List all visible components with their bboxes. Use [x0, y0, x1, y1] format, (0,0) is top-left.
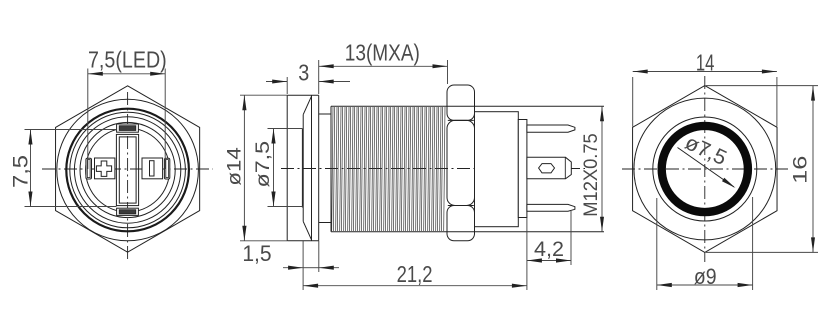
dim o14 dimension line: [243, 95, 245, 241]
dim o7,5 arrow bottom: [271, 192, 275, 207]
left view right contact bar inner: [166, 160, 169, 178]
dim M12X0.75 dimension line: [601, 106, 603, 232]
thread hatching: [332, 107, 445, 231]
svg-text:7,5(LED): 7,5(LED): [88, 46, 167, 72]
dim 7,5 extension line bottom: [25, 206, 117, 208]
rear collar: [518, 120, 527, 218]
dim 7,5 arrow bottom: [28, 192, 32, 207]
dim 1,5 segment: [303, 267, 319, 269]
middle view button side edge: [302, 115, 304, 222]
dim 3 arrow left: [272, 80, 287, 84]
middle view thread shoulder: [330, 106, 332, 232]
middle pin hole: [539, 164, 555, 173]
dim o9 extension left: [656, 198, 658, 290]
dim o14 arrow top: [242, 95, 246, 110]
left view top terminal hatch: [119, 126, 136, 131]
dim 4,2 dimension line: [527, 260, 571, 262]
dim 7,5 dimension line: [30, 130, 32, 207]
hex nut bottom facet: [447, 206, 475, 241]
hex nut top facet: [447, 85, 475, 120]
dim 1,5 arrow left: [288, 266, 303, 270]
left view bottom terminal hatch: [119, 210, 136, 214]
dim 14 arrow left: [633, 70, 648, 74]
dim 4,2 arrow right: [556, 258, 571, 262]
left view circle step 2: [74, 117, 180, 223]
left view bottom terminal outer: [117, 208, 139, 215]
dim o7,5 arrow top: [271, 129, 275, 144]
left view cross recess: [96, 161, 111, 176]
svg-text:ø7,5: ø7,5: [253, 141, 274, 188]
left view left contact bar inner: [87, 160, 90, 178]
leader line o7,5: [678, 148, 735, 188]
svg-text:1,5: 1,5: [242, 241, 271, 266]
middle pin chamfer line: [564, 157, 566, 179]
middle view head top edge: [287, 94, 319, 96]
dim o9 arrow right: [738, 283, 753, 287]
svg-text:ø14: ø14: [225, 147, 246, 186]
right view hexagon outline: [633, 86, 777, 253]
left view slot recess: [150, 161, 155, 176]
dim 14 arrow right: [762, 70, 777, 74]
leader arrow: [722, 178, 736, 188]
dim 1,5 extension right: [318, 241, 320, 272]
dim 16 dimension line: [812, 86, 814, 253]
dim 7,5(LED) extension line left: [87, 69, 89, 170]
right view button circle: [653, 117, 757, 221]
dim 7,5(LED) arrow right: [150, 72, 165, 76]
middle view flange inner edge: [311, 95, 313, 241]
dim 3 dimension tail left: [266, 81, 287, 83]
dim 13(MXA) dimension line: [319, 65, 448, 67]
middle view chamfer top: [303, 96, 311, 114]
dim 13(MXA) arrow left: [319, 64, 334, 68]
dim o7,5 extension bottom: [268, 206, 303, 208]
dim 14 dimension line: [633, 71, 777, 73]
left view central LED slot inner: [119, 137, 136, 203]
middle pin with hole: [527, 157, 571, 179]
top pin: [527, 125, 575, 132]
left view left square contact: [95, 158, 115, 179]
svg-text:ø9: ø9: [694, 264, 717, 289]
dim o9 dimension line: [657, 284, 753, 286]
middle view flange back face: [318, 95, 320, 241]
middle view thread top edge and M12 extension: [331, 105, 604, 107]
middle view horizontal centerline: [281, 168, 585, 170]
dim 7,5 arrow top: [28, 130, 32, 145]
dim 7,5(LED) dimension line: [88, 73, 165, 75]
dim 7,5(LED) extension line right: [164, 69, 166, 170]
middle view thread bottom edge and M12 extension: [331, 231, 604, 233]
dim 16 extension top: [706, 85, 818, 87]
left view left contact bar outer: [86, 158, 92, 179]
dim o7,5 extension top: [268, 128, 303, 130]
dim 7,5(LED) arrow left: [88, 72, 103, 76]
dim 13(MXA) extension left: [318, 60, 320, 94]
rear body: [475, 112, 519, 227]
dim o14 arrow bottom: [242, 226, 246, 241]
svg-text:14: 14: [696, 49, 715, 75]
dim 14 extension left: [632, 77, 634, 127]
dim 21,2 arrow right: [512, 284, 527, 288]
dim 13(MXA) extension right: [447, 60, 449, 84]
dim 21,2 dimension line: [303, 285, 527, 287]
left view circle step 4: [86, 128, 170, 212]
left view central LED slot outer: [116, 134, 138, 205]
svg-text:13(MXA): 13(MXA): [345, 39, 420, 65]
left view horizontal centerline: [42, 168, 213, 170]
right view LED ring: [662, 126, 748, 212]
dim 1,5 tail left: [283, 267, 303, 269]
dim 4,2 arrow left: [527, 258, 542, 262]
hex nut facet boundary top: [448, 119, 474, 121]
dim 3 arrow right: [319, 80, 334, 84]
left view right square contact: [142, 158, 163, 179]
left view bezel circle o14: [57, 99, 199, 241]
dim 7,5 extension line top: [25, 129, 117, 131]
dim 16 arrow bottom: [811, 237, 815, 252]
hex nut facet boundary bottom: [448, 205, 474, 207]
left view vertical centerline: [127, 92, 129, 260]
dim 14 extension right: [776, 77, 778, 127]
svg-text:16: 16: [791, 156, 812, 184]
middle view button front face: [286, 95, 288, 241]
bottom pin: [527, 204, 575, 211]
left view LED ring circle thick: [66, 109, 189, 232]
hex nut middle facet: [447, 120, 475, 205]
dim 4,2 extension right: [570, 211, 572, 265]
dim 21,2 extension right: [526, 218, 528, 291]
left view circle step 3: [80, 122, 175, 217]
dim o9 extension right: [752, 197, 754, 290]
left view right contact bar outer: [164, 158, 169, 179]
middle view button o7.5 edge: [301, 129, 303, 208]
dim o14 extension bottom: [240, 240, 287, 242]
left view top terminal outer: [117, 124, 139, 132]
dim 1,5 arrow right: [319, 266, 334, 270]
right view horizontal centerline: [622, 168, 788, 170]
middle view chamfer bottom: [303, 221, 311, 239]
svg-text:7,5: 7,5: [10, 155, 33, 188]
dim M12X0.75 arrow top: [600, 106, 604, 121]
middle view neck top: [319, 113, 331, 115]
dim 1,5 tail right: [319, 267, 339, 269]
dim 3 dimension tail right: [319, 81, 350, 83]
dim 21,2 arrow left: [303, 284, 318, 288]
right view bezel circle: [634, 98, 776, 240]
dim o14 extension top: [240, 94, 287, 96]
left view hexagonal bezel outline: [56, 86, 200, 252]
dim M12X0.75 arrow bottom: [600, 217, 604, 232]
dim 13(MXA) arrow right: [433, 64, 448, 68]
dim 16 extension bottom: [706, 251, 818, 253]
svg-text:4,2: 4,2: [534, 237, 564, 261]
left view circle step 1: [70, 112, 186, 228]
middle view neck bottom: [319, 222, 331, 224]
dim 3 extension left: [286, 77, 288, 94]
svg-text:3: 3: [298, 60, 309, 86]
dim o7,5 dimension line: [273, 129, 275, 207]
middle view head bottom edge: [287, 240, 319, 242]
svg-text:M12X0.75: M12X0.75: [581, 133, 602, 217]
dim 16 arrow top: [811, 86, 815, 101]
dim 21,2 extension left: [302, 241, 304, 290]
dim o9 arrow left: [657, 283, 672, 287]
svg-text:21,2: 21,2: [397, 261, 433, 287]
right view vertical centerline: [704, 76, 706, 262]
